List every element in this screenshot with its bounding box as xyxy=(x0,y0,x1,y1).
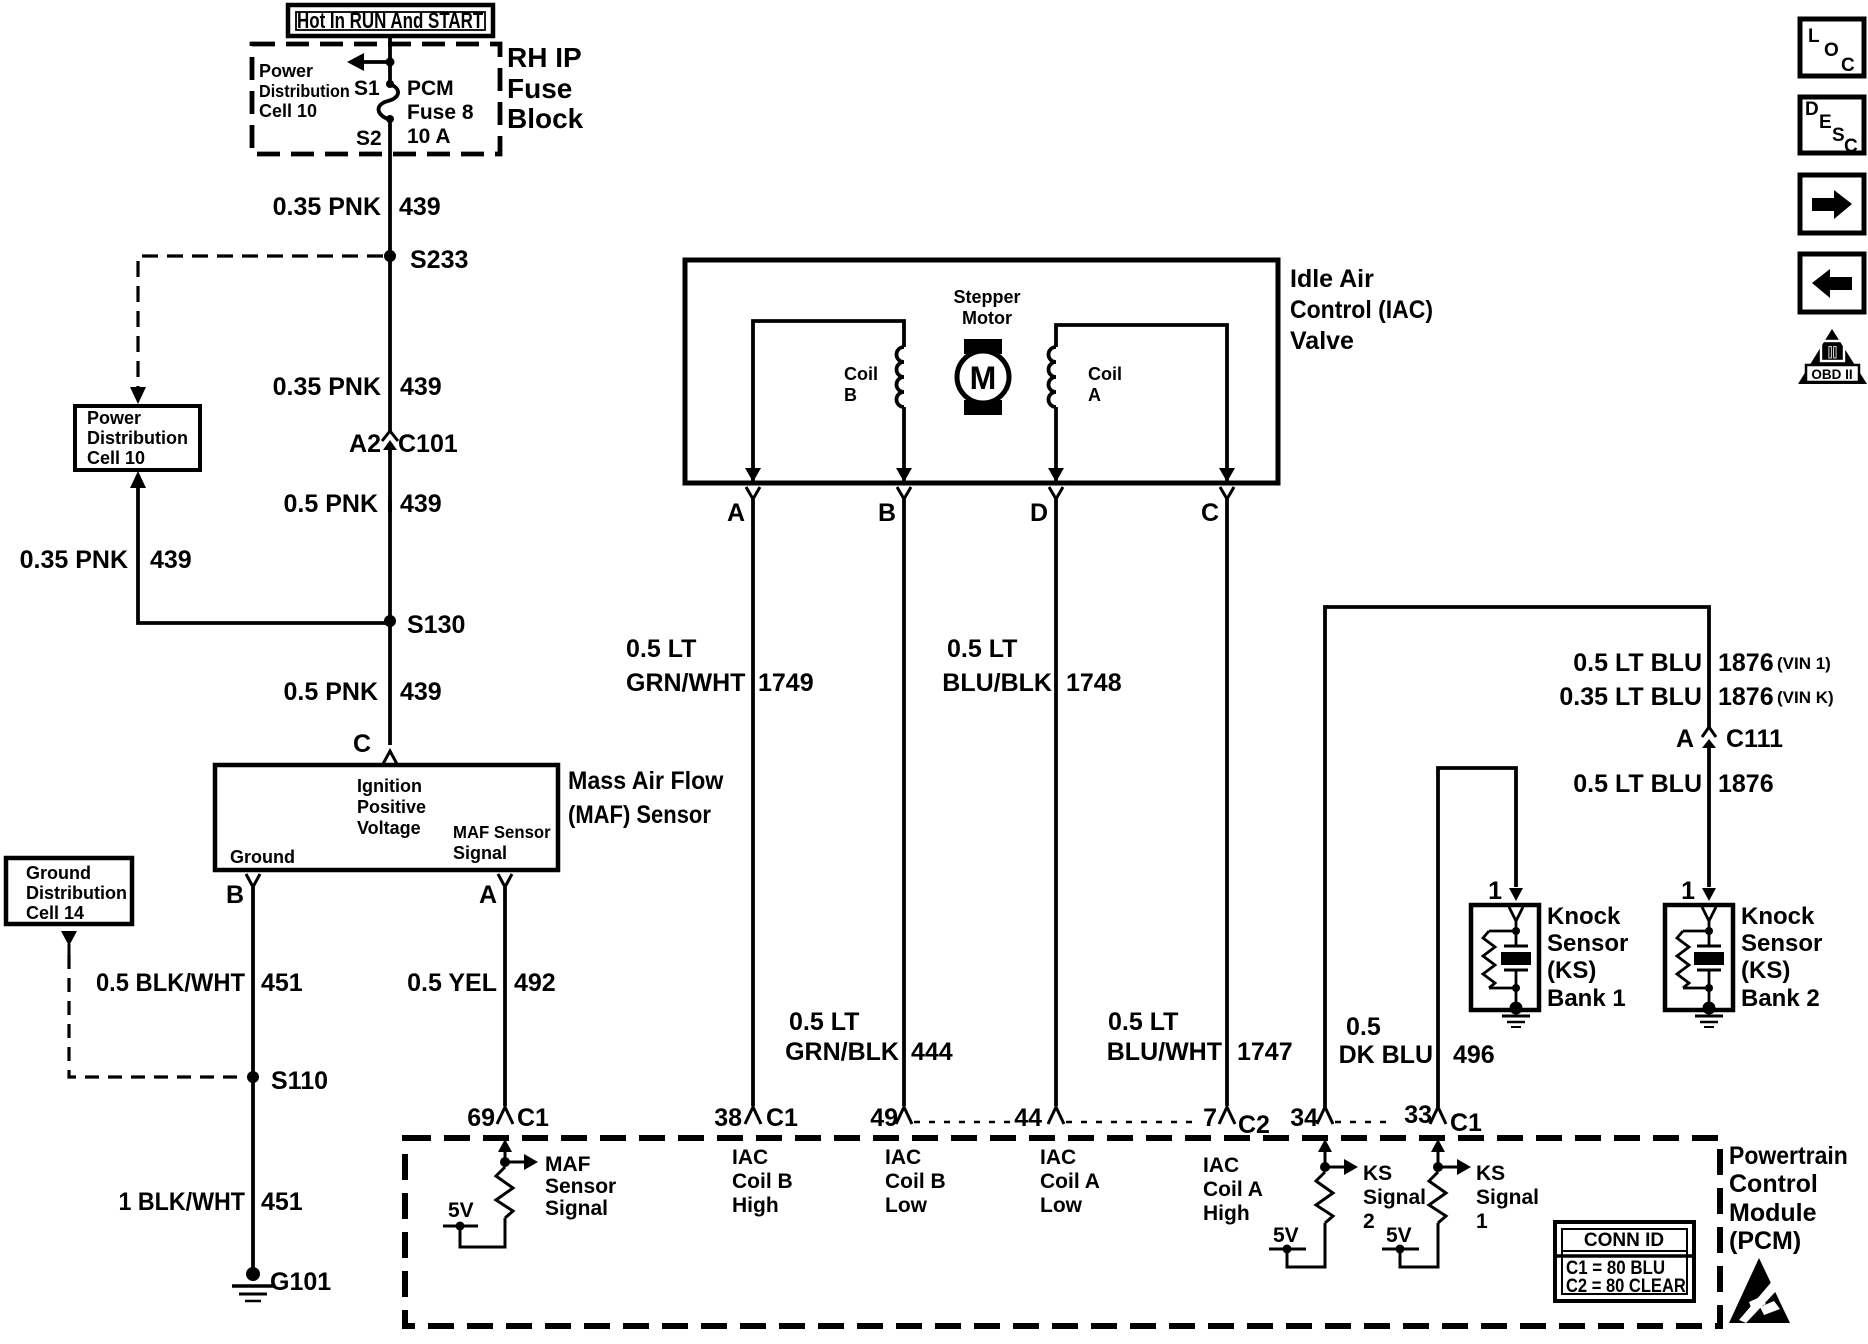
svg-text:BLU/WHT: BLU/WHT xyxy=(1107,1038,1222,1066)
svg-text:Stepper: Stepper xyxy=(953,287,1020,307)
label 0.5 LT GRN/WHT 1749 (wire A) xyxy=(626,635,814,697)
svg-text:II: II xyxy=(1828,343,1837,362)
svg-text:0.5 LT: 0.5 LT xyxy=(789,1008,859,1036)
svg-text:C1: C1 xyxy=(766,1104,798,1132)
svg-text:Coil: Coil xyxy=(1088,364,1122,384)
connector C111 pin A xyxy=(1676,725,1783,887)
svg-text:G101: G101 xyxy=(270,1268,331,1296)
svg-text:0.5 LT BLU: 0.5 LT BLU xyxy=(1573,770,1702,798)
svg-text:C2 = 80 CLEAR: C2 = 80 CLEAR xyxy=(1566,1275,1686,1296)
label 0.5 LT BLU/WHT 1747 (wire C) xyxy=(1107,1008,1293,1066)
KS bank1 pin 1 arrow xyxy=(1488,877,1523,905)
header box Hot In RUN And START xyxy=(288,5,493,36)
svg-text:(MAF) Sensor: (MAF) Sensor xyxy=(568,801,711,829)
svg-text:439: 439 xyxy=(399,193,441,221)
svg-text:BLU/BLK: BLU/BLK xyxy=(942,669,1052,697)
ground distribution cell 14 box xyxy=(6,858,132,924)
svg-text:Bank 1: Bank 1 xyxy=(1547,985,1626,1012)
left arrow nav icon xyxy=(1800,254,1864,312)
label 0.35 PNK 439 (branch) xyxy=(20,546,192,574)
svg-text:1747: 1747 xyxy=(1237,1038,1293,1066)
svg-text:C: C xyxy=(1201,499,1219,527)
pin 69 C1 connector at PCM xyxy=(467,1104,549,1132)
KS1 branch wire pin33 to KS bank1 xyxy=(1438,768,1516,1107)
svg-text:C1: C1 xyxy=(517,1104,549,1132)
svg-text:Positive: Positive xyxy=(357,797,426,817)
pin C connector below IAC xyxy=(1201,487,1234,1106)
pin 33 C1 connector xyxy=(1404,1101,1482,1137)
svg-text:GRN/BLK: GRN/BLK xyxy=(785,1038,899,1066)
svg-text:7: 7 xyxy=(1203,1104,1217,1132)
power distribution cell 10 label (in fuse block) xyxy=(259,61,350,121)
arrow down at IAC pin C xyxy=(1219,468,1235,482)
svg-text:439: 439 xyxy=(400,490,442,518)
node S110 xyxy=(247,1067,328,1095)
label IAC Coil A Low xyxy=(1040,1146,1100,1217)
dotted connector line 34 to 33 xyxy=(1335,1121,1394,1124)
ESD warning symbol xyxy=(1729,1258,1790,1323)
svg-text:High: High xyxy=(732,1194,779,1217)
knock sensor KS bank 1 box xyxy=(1471,905,1539,1015)
dotted connector line 44 to 7 xyxy=(1066,1121,1196,1124)
svg-text:DK BLU: DK BLU xyxy=(1339,1041,1433,1069)
svg-text:Voltage: Voltage xyxy=(357,818,421,838)
arrow down at IAC pin B xyxy=(896,468,912,482)
svg-text:A: A xyxy=(479,881,497,909)
svg-text:Signal: Signal xyxy=(1476,1186,1539,1209)
svg-text:5V: 5V xyxy=(1386,1224,1412,1247)
svg-text:MAF: MAF xyxy=(545,1153,591,1176)
CONN ID table xyxy=(1555,1222,1694,1301)
label KS Signal 1 xyxy=(1476,1162,1539,1233)
arrow down at IAC pin A xyxy=(745,468,761,482)
svg-text:Coil B: Coil B xyxy=(885,1170,946,1193)
svg-text:Signal: Signal xyxy=(545,1197,608,1220)
label 0.5 PNK 439 xyxy=(284,678,442,706)
ground below KS bank 2 xyxy=(1695,1016,1723,1027)
svg-text:Valve: Valve xyxy=(1290,327,1354,355)
svg-text:C: C xyxy=(1841,55,1855,76)
svg-text:Ground: Ground xyxy=(230,847,295,867)
svg-text:5V: 5V xyxy=(1273,1224,1299,1247)
pin 49 connector xyxy=(870,1104,912,1132)
coil A winding and loop wire xyxy=(1049,325,1228,481)
pin C connector into MAF xyxy=(353,730,397,764)
svg-text:KS: KS xyxy=(1476,1162,1505,1185)
svg-text:Coil A: Coil A xyxy=(1203,1178,1263,1201)
KS bus wire pin34 to C111 xyxy=(1325,607,1709,1107)
svg-text:B: B xyxy=(844,385,857,405)
dashed wire ground distribution to S110 xyxy=(69,955,246,1077)
label 0.5 LT BLU 1876 (VIN 1) xyxy=(1573,649,1831,677)
svg-text:0.5 LT: 0.5 LT xyxy=(626,635,696,663)
stepper motor M symbol xyxy=(957,339,1009,415)
svg-text:Cell 10: Cell 10 xyxy=(259,101,317,121)
svg-text:Powertrain: Powertrain xyxy=(1729,1142,1848,1170)
DESC nav icon xyxy=(1800,97,1864,157)
node S130 xyxy=(384,611,465,639)
svg-text:B: B xyxy=(878,499,896,527)
svg-text:Fuse: Fuse xyxy=(507,73,572,104)
svg-text:D: D xyxy=(1805,99,1819,120)
pin 44 connector xyxy=(1014,1104,1064,1132)
svg-text:OBD II: OBD II xyxy=(1811,367,1852,382)
svg-text:Module: Module xyxy=(1729,1199,1817,1227)
KS signal 1 pull-down network xyxy=(1382,1139,1471,1267)
svg-text:C: C xyxy=(1844,136,1858,157)
svg-text:439: 439 xyxy=(400,373,442,401)
svg-text:A: A xyxy=(1088,385,1101,405)
svg-text:Fuse 8: Fuse 8 xyxy=(407,101,474,124)
svg-text:1876: 1876 xyxy=(1718,770,1774,798)
svg-text:Sensor: Sensor xyxy=(1547,930,1628,957)
svg-text:PCM: PCM xyxy=(407,77,454,100)
svg-text:Mass Air Flow: Mass Air Flow xyxy=(568,767,724,795)
branch wire S130 to power distribution box with arrow xyxy=(130,471,390,623)
svg-text:Motor: Motor xyxy=(962,308,1012,328)
label 0.5 DK BLU 496 xyxy=(1339,1013,1495,1069)
ground below KS bank 1 xyxy=(1502,1016,1530,1027)
MAF sensor signal pull-up network xyxy=(443,1139,538,1247)
svg-text:1748: 1748 xyxy=(1066,669,1122,697)
OBD II symbol xyxy=(1798,329,1867,384)
wire S233 to C101 xyxy=(388,256,392,431)
svg-text:0.5 LT: 0.5 LT xyxy=(1108,1008,1178,1036)
svg-text:Power: Power xyxy=(259,61,313,81)
svg-text:IAC: IAC xyxy=(885,1146,921,1169)
svg-text:IAC: IAC xyxy=(732,1146,768,1169)
Idle Air Control (IAC) Valve label xyxy=(1290,265,1433,355)
svg-text:Coil A: Coil A xyxy=(1040,1170,1100,1193)
svg-text:Sensor: Sensor xyxy=(1741,930,1822,957)
label 0.35 PNK 439 xyxy=(273,373,442,401)
svg-text:Power: Power xyxy=(87,408,141,428)
svg-text:High: High xyxy=(1203,1202,1250,1225)
svg-text:RH IP: RH IP xyxy=(507,42,582,73)
wire into fuse block with node xyxy=(386,36,395,84)
svg-text:Distribution: Distribution xyxy=(259,81,350,101)
knock sensor KS bank 2 box xyxy=(1665,905,1733,1015)
svg-text:S1: S1 xyxy=(354,77,380,100)
svg-text:Coil B: Coil B xyxy=(732,1170,793,1193)
svg-text:C111: C111 xyxy=(1726,725,1783,753)
arrow down at IAC pin D xyxy=(1048,468,1064,482)
svg-text:C1: C1 xyxy=(1450,1109,1482,1137)
svg-text:1876: 1876 xyxy=(1718,683,1774,711)
svg-text:0.35 PNK: 0.35 PNK xyxy=(273,373,381,401)
svg-text:(VIN K): (VIN K) xyxy=(1777,688,1834,707)
dashed branch wire S233 to power distribution box xyxy=(130,256,383,404)
svg-text:S2: S2 xyxy=(356,127,382,150)
wire fuse to S233 xyxy=(388,119,392,256)
svg-text:S130: S130 xyxy=(407,611,465,639)
label 0.5 YEL 492 xyxy=(407,969,556,997)
svg-text:Cell 14: Cell 14 xyxy=(26,903,84,923)
svg-text:Knock: Knock xyxy=(1547,903,1621,930)
connector C101 pin A2 xyxy=(349,430,458,512)
PCM dashed box xyxy=(405,1138,1720,1326)
svg-text:1: 1 xyxy=(1488,877,1502,905)
svg-text:439: 439 xyxy=(150,546,192,574)
svg-text:2: 2 xyxy=(1363,1210,1375,1233)
svg-text:O: O xyxy=(1824,40,1839,61)
label 0.5 LT GRN/BLK 444 (wire B) xyxy=(785,1008,953,1066)
svg-text:Idle Air: Idle Air xyxy=(1290,265,1374,293)
label Knock Sensor (KS) Bank 2 xyxy=(1741,903,1822,1012)
svg-text:0.5 YEL: 0.5 YEL xyxy=(407,969,497,997)
pin D connector below IAC xyxy=(1030,487,1063,1106)
pin A connector below IAC xyxy=(727,487,760,1106)
svg-text:GRN/WHT: GRN/WHT xyxy=(626,669,745,697)
svg-text:L: L xyxy=(1808,26,1820,47)
wire C101 to S130 xyxy=(388,500,392,745)
svg-text:1749: 1749 xyxy=(758,669,814,697)
svg-text:1876: 1876 xyxy=(1718,649,1774,677)
svg-text:CONN ID: CONN ID xyxy=(1584,1230,1664,1251)
label KS Signal 2 xyxy=(1363,1162,1426,1233)
svg-text:S: S xyxy=(1832,125,1845,146)
svg-text:44: 44 xyxy=(1014,1104,1042,1132)
LOC nav icon xyxy=(1800,19,1864,76)
label 0.5 PNK 439 xyxy=(284,490,442,518)
stepper motor label xyxy=(953,287,1020,328)
Mass Air Flow (MAF) Sensor label xyxy=(568,767,724,828)
pin 7 C2 connector xyxy=(1203,1104,1270,1139)
label 0.5 LT BLU 1876 xyxy=(1573,770,1773,798)
right arrow nav icon xyxy=(1800,175,1864,233)
svg-text:Control: Control xyxy=(1729,1170,1818,1198)
svg-text:Cell 10: Cell 10 xyxy=(87,448,145,468)
svg-text:Bank 2: Bank 2 xyxy=(1741,985,1820,1012)
label Knock Sensor (KS) Bank 1 xyxy=(1547,903,1628,1012)
svg-text:5V: 5V xyxy=(448,1199,474,1222)
svg-text:1 BLK/WHT: 1 BLK/WHT xyxy=(119,1188,246,1216)
svg-text:Low: Low xyxy=(1040,1194,1083,1217)
svg-text:69: 69 xyxy=(467,1104,495,1132)
svg-text:Knock: Knock xyxy=(1741,903,1815,930)
svg-text:34: 34 xyxy=(1290,1104,1318,1132)
svg-text:Distribution: Distribution xyxy=(26,883,127,903)
svg-text:IAC: IAC xyxy=(1040,1146,1076,1169)
svg-text:(KS): (KS) xyxy=(1741,957,1790,984)
arrow below ground distribution box xyxy=(61,931,77,955)
label IAC Coil B High xyxy=(732,1146,793,1217)
power distribution cell 10 box xyxy=(75,406,200,470)
svg-text:A: A xyxy=(727,499,745,527)
RH IP fuse block dashed box xyxy=(252,42,584,154)
svg-text:S233: S233 xyxy=(410,246,468,274)
svg-text:Control (IAC): Control (IAC) xyxy=(1290,296,1433,324)
svg-text:KS: KS xyxy=(1363,1162,1392,1185)
label 0.35 LT BLU 1876 (VIN K) xyxy=(1559,683,1833,711)
svg-text:0.5 PNK: 0.5 PNK xyxy=(284,678,378,706)
svg-text:Hot In RUN And START: Hot In RUN And START xyxy=(297,9,483,34)
label 0.5 BLK/WHT 451 xyxy=(96,969,303,997)
svg-text:A2: A2 xyxy=(349,430,381,458)
KS signal 2 pull-down network xyxy=(1269,1139,1358,1267)
svg-text:1: 1 xyxy=(1681,877,1695,905)
fuse F8 PCM Fuse 8 10A xyxy=(379,77,474,148)
ground G101 xyxy=(232,1267,331,1301)
svg-text:Signal: Signal xyxy=(453,843,507,863)
svg-text:492: 492 xyxy=(514,969,556,997)
svg-text:444: 444 xyxy=(911,1038,953,1066)
svg-text:Signal: Signal xyxy=(1363,1186,1426,1209)
svg-text:S110: S110 xyxy=(271,1067,328,1095)
node S233 xyxy=(384,246,468,274)
svg-text:10 A: 10 A xyxy=(407,125,451,148)
svg-text:0.5: 0.5 xyxy=(1346,1013,1381,1041)
pin B connector xyxy=(226,874,260,1272)
svg-text:38: 38 xyxy=(714,1104,742,1132)
svg-text:439: 439 xyxy=(400,678,442,706)
svg-text:496: 496 xyxy=(1453,1041,1495,1069)
Powertrain Control Module (PCM) label xyxy=(1729,1142,1848,1255)
svg-text:MAF Sensor: MAF Sensor xyxy=(453,821,551,842)
svg-text:(KS): (KS) xyxy=(1547,957,1596,984)
dotted connector line 49 to 44 xyxy=(914,1121,1012,1124)
label 1 BLK/WHT 451 xyxy=(119,1188,303,1216)
svg-text:451: 451 xyxy=(261,969,303,997)
pin A connector xyxy=(479,874,512,1106)
svg-text:E: E xyxy=(1819,112,1832,133)
svg-text:Ground: Ground xyxy=(26,863,91,883)
svg-text:0.5 LT: 0.5 LT xyxy=(947,635,1017,663)
svg-text:Sensor: Sensor xyxy=(545,1175,616,1198)
label 0.35 PNK 439 xyxy=(273,193,441,221)
pin 38 C1 connector xyxy=(714,1104,798,1132)
IAC valve box xyxy=(685,260,1278,483)
svg-text:C2: C2 xyxy=(1238,1111,1270,1139)
svg-text:1: 1 xyxy=(1476,1210,1488,1233)
svg-text:C101: C101 xyxy=(398,430,458,458)
svg-text:0.5 PNK: 0.5 PNK xyxy=(284,490,378,518)
svg-text:IAC: IAC xyxy=(1203,1154,1239,1177)
svg-text:0.35 PNK: 0.35 PNK xyxy=(20,546,128,574)
label IAC Coil A High xyxy=(1203,1154,1263,1225)
svg-text:B: B xyxy=(226,881,244,909)
svg-text:Coil: Coil xyxy=(844,364,878,384)
svg-text:Ignition: Ignition xyxy=(357,776,422,796)
svg-text:A: A xyxy=(1676,725,1694,753)
svg-text:0.35 LT BLU: 0.35 LT BLU xyxy=(1559,683,1702,711)
KS bank2 pin 1 arrow xyxy=(1681,877,1716,905)
svg-text:451: 451 xyxy=(261,1188,303,1216)
arrow to power distribution cell 10 xyxy=(347,53,390,71)
pin 34 connector xyxy=(1290,1104,1333,1132)
svg-text:(PCM): (PCM) xyxy=(1729,1227,1801,1255)
label MAF Sensor Signal (PCM) xyxy=(545,1153,616,1220)
svg-text:D: D xyxy=(1030,499,1048,527)
svg-text:Distribution: Distribution xyxy=(87,428,188,448)
svg-text:(VIN 1): (VIN 1) xyxy=(1777,654,1831,673)
svg-text:C: C xyxy=(353,730,371,758)
coil B winding and loop wire xyxy=(753,321,904,481)
svg-text:0.35 PNK: 0.35 PNK xyxy=(273,193,381,221)
svg-text:0.5 BLK/WHT: 0.5 BLK/WHT xyxy=(96,969,245,997)
svg-text:33: 33 xyxy=(1404,1101,1432,1129)
pin B connector below IAC xyxy=(878,487,911,1106)
label 0.5 LT BLU/BLK 1748 (wire D) xyxy=(942,635,1121,697)
svg-text:0.5 LT BLU: 0.5 LT BLU xyxy=(1573,649,1702,677)
label IAC Coil B Low xyxy=(885,1146,946,1217)
MAF sensor box xyxy=(215,765,558,870)
svg-text:Block: Block xyxy=(507,103,584,134)
svg-text:Low: Low xyxy=(885,1194,928,1217)
svg-text:49: 49 xyxy=(870,1104,898,1132)
svg-text:M: M xyxy=(970,360,997,396)
